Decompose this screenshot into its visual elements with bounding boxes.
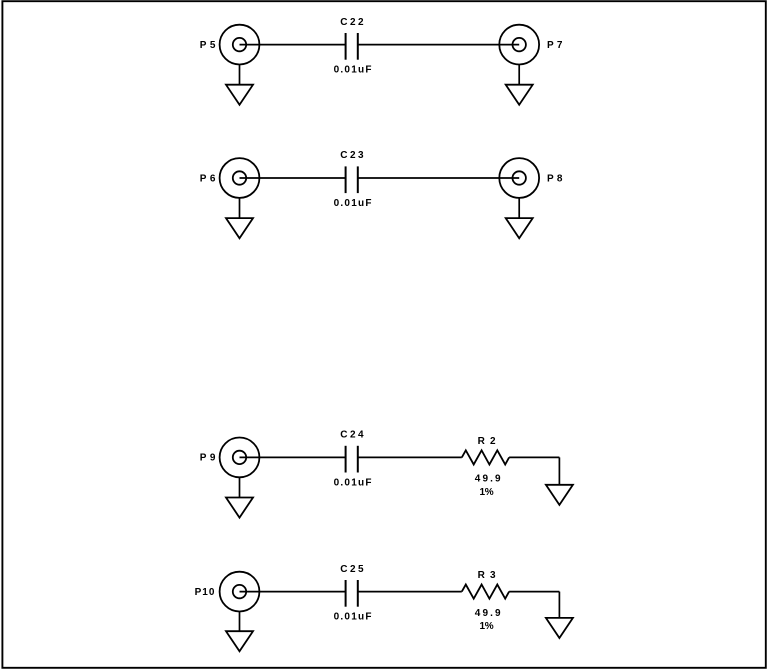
label P8 [547, 173, 563, 184]
wire P8 to ground [518, 198, 520, 218]
label P7 [547, 40, 563, 51]
capacitor C22 [346, 33, 358, 60]
connector P7 [499, 25, 539, 65]
label R3 value 49.9 [475, 608, 501, 619]
capacitor C24 [346, 446, 358, 473]
label C24 [340, 430, 364, 441]
label P5 [200, 40, 216, 51]
ground under P8 [506, 218, 533, 238]
label P9 [200, 453, 216, 464]
resistor R3 [462, 585, 509, 599]
svg-text:49.9: 49.9 [475, 608, 501, 619]
connector P6 [220, 158, 260, 198]
label C25 [340, 564, 364, 575]
label R2 tolerance 1% [480, 487, 494, 498]
label C24 value 0.01uF [334, 478, 372, 489]
connector P9 [220, 438, 260, 478]
wire P5 to ground [239, 65, 241, 85]
ground under P7 [506, 85, 533, 105]
wire R2 to corner [509, 456, 559, 458]
label C23 value 0.01uF [334, 198, 372, 209]
wire P6 to ground [239, 198, 241, 218]
label C22 [340, 17, 364, 28]
ground right of R2 [546, 485, 573, 505]
ground under P6 [226, 218, 253, 238]
label C22 value 0.01uF [334, 65, 372, 76]
wire C24 right plate to R2 [358, 456, 462, 458]
connector P8 [499, 158, 539, 198]
ground under P5 [226, 85, 253, 105]
label R3 tolerance 1% [480, 621, 494, 632]
capacitor C25 [346, 580, 358, 607]
svg-text:1%: 1% [480, 621, 494, 632]
svg-text:C24: C24 [340, 430, 364, 441]
connector P5 [220, 25, 260, 65]
label R2 [478, 436, 496, 447]
wire P7 to ground [518, 65, 520, 85]
ground under P10 [226, 631, 253, 651]
wire P9 center to C24 left plate [240, 456, 346, 458]
label R2 value 49.9 [475, 474, 501, 485]
ground right of R3 [546, 618, 573, 638]
svg-text:1%: 1% [480, 487, 494, 498]
wire R3 to corner [509, 591, 559, 593]
svg-text:49.9: 49.9 [475, 474, 501, 485]
wire P10 center to C25 left plate [240, 591, 346, 593]
wire P5 center to C22 left plate [240, 44, 346, 46]
wire P10 to ground [239, 612, 241, 632]
svg-text:C23: C23 [340, 150, 364, 161]
resistor R2 [462, 450, 509, 464]
label R3 [478, 570, 496, 581]
wire C25 right plate to R3 [358, 591, 462, 593]
wire corner down to ground [558, 457, 560, 484]
label P10 [195, 587, 215, 598]
wire C23 right plate to P8 center [358, 177, 519, 179]
svg-text:C25: C25 [340, 564, 364, 575]
wire corner down to ground [558, 592, 560, 618]
wire P6 center to C23 left plate [240, 177, 346, 179]
wire C22 right plate to P7 center [358, 44, 519, 46]
capacitor C23 [346, 166, 358, 193]
wire P9 to ground [239, 477, 241, 497]
label C23 [340, 150, 364, 161]
connector P10 [220, 572, 260, 612]
svg-text:P10: P10 [195, 587, 215, 598]
ground under P9 [226, 498, 253, 518]
svg-text:C22: C22 [340, 17, 364, 28]
label C25 value 0.01uF [334, 612, 372, 623]
label P6 [200, 173, 216, 184]
